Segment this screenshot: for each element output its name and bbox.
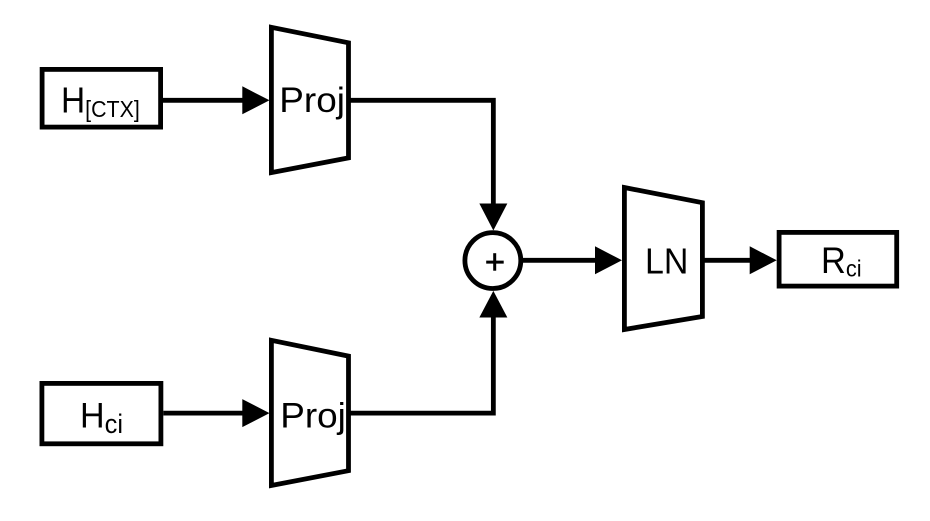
trapezoid Proj U2: [271, 340, 348, 485]
arrowhead down into adder: [479, 204, 507, 231]
box Hci: [42, 383, 161, 443]
label Proj (top): [279, 80, 345, 120]
arrowhead up into adder: [479, 291, 507, 318]
label Proj (bottom): [280, 395, 346, 435]
label LN: [645, 242, 688, 282]
svg-text:LN: LN: [645, 242, 688, 282]
label Rci: [821, 240, 862, 282]
svg-text:Proj: Proj: [279, 80, 345, 120]
arrowhead into Proj1: [242, 86, 269, 114]
wire Proj2 to adder (right then up): [349, 316, 494, 413]
box H[CTX]: [42, 69, 161, 127]
svg-text:Proj: Proj: [280, 395, 346, 435]
arrowhead into LN: [595, 246, 622, 274]
trapezoid Proj U1: [271, 27, 348, 172]
wire H[CTX] to Proj1: [163, 98, 244, 103]
trapezoid LN: [624, 188, 702, 330]
arrowhead into Proj2: [242, 399, 269, 427]
wire LN to Rci: [702, 258, 751, 263]
label Hci: [80, 397, 123, 440]
label H[CTX]: [61, 82, 140, 123]
wire Hci to Proj2: [163, 411, 244, 416]
adder circle: [465, 233, 521, 289]
arrowhead into Rci: [750, 246, 777, 274]
plus sign: [486, 261, 504, 264]
wire adder to LN: [521, 258, 597, 263]
wire Proj1 to adder (right then down): [349, 100, 494, 205]
box Rci: [779, 232, 897, 286]
